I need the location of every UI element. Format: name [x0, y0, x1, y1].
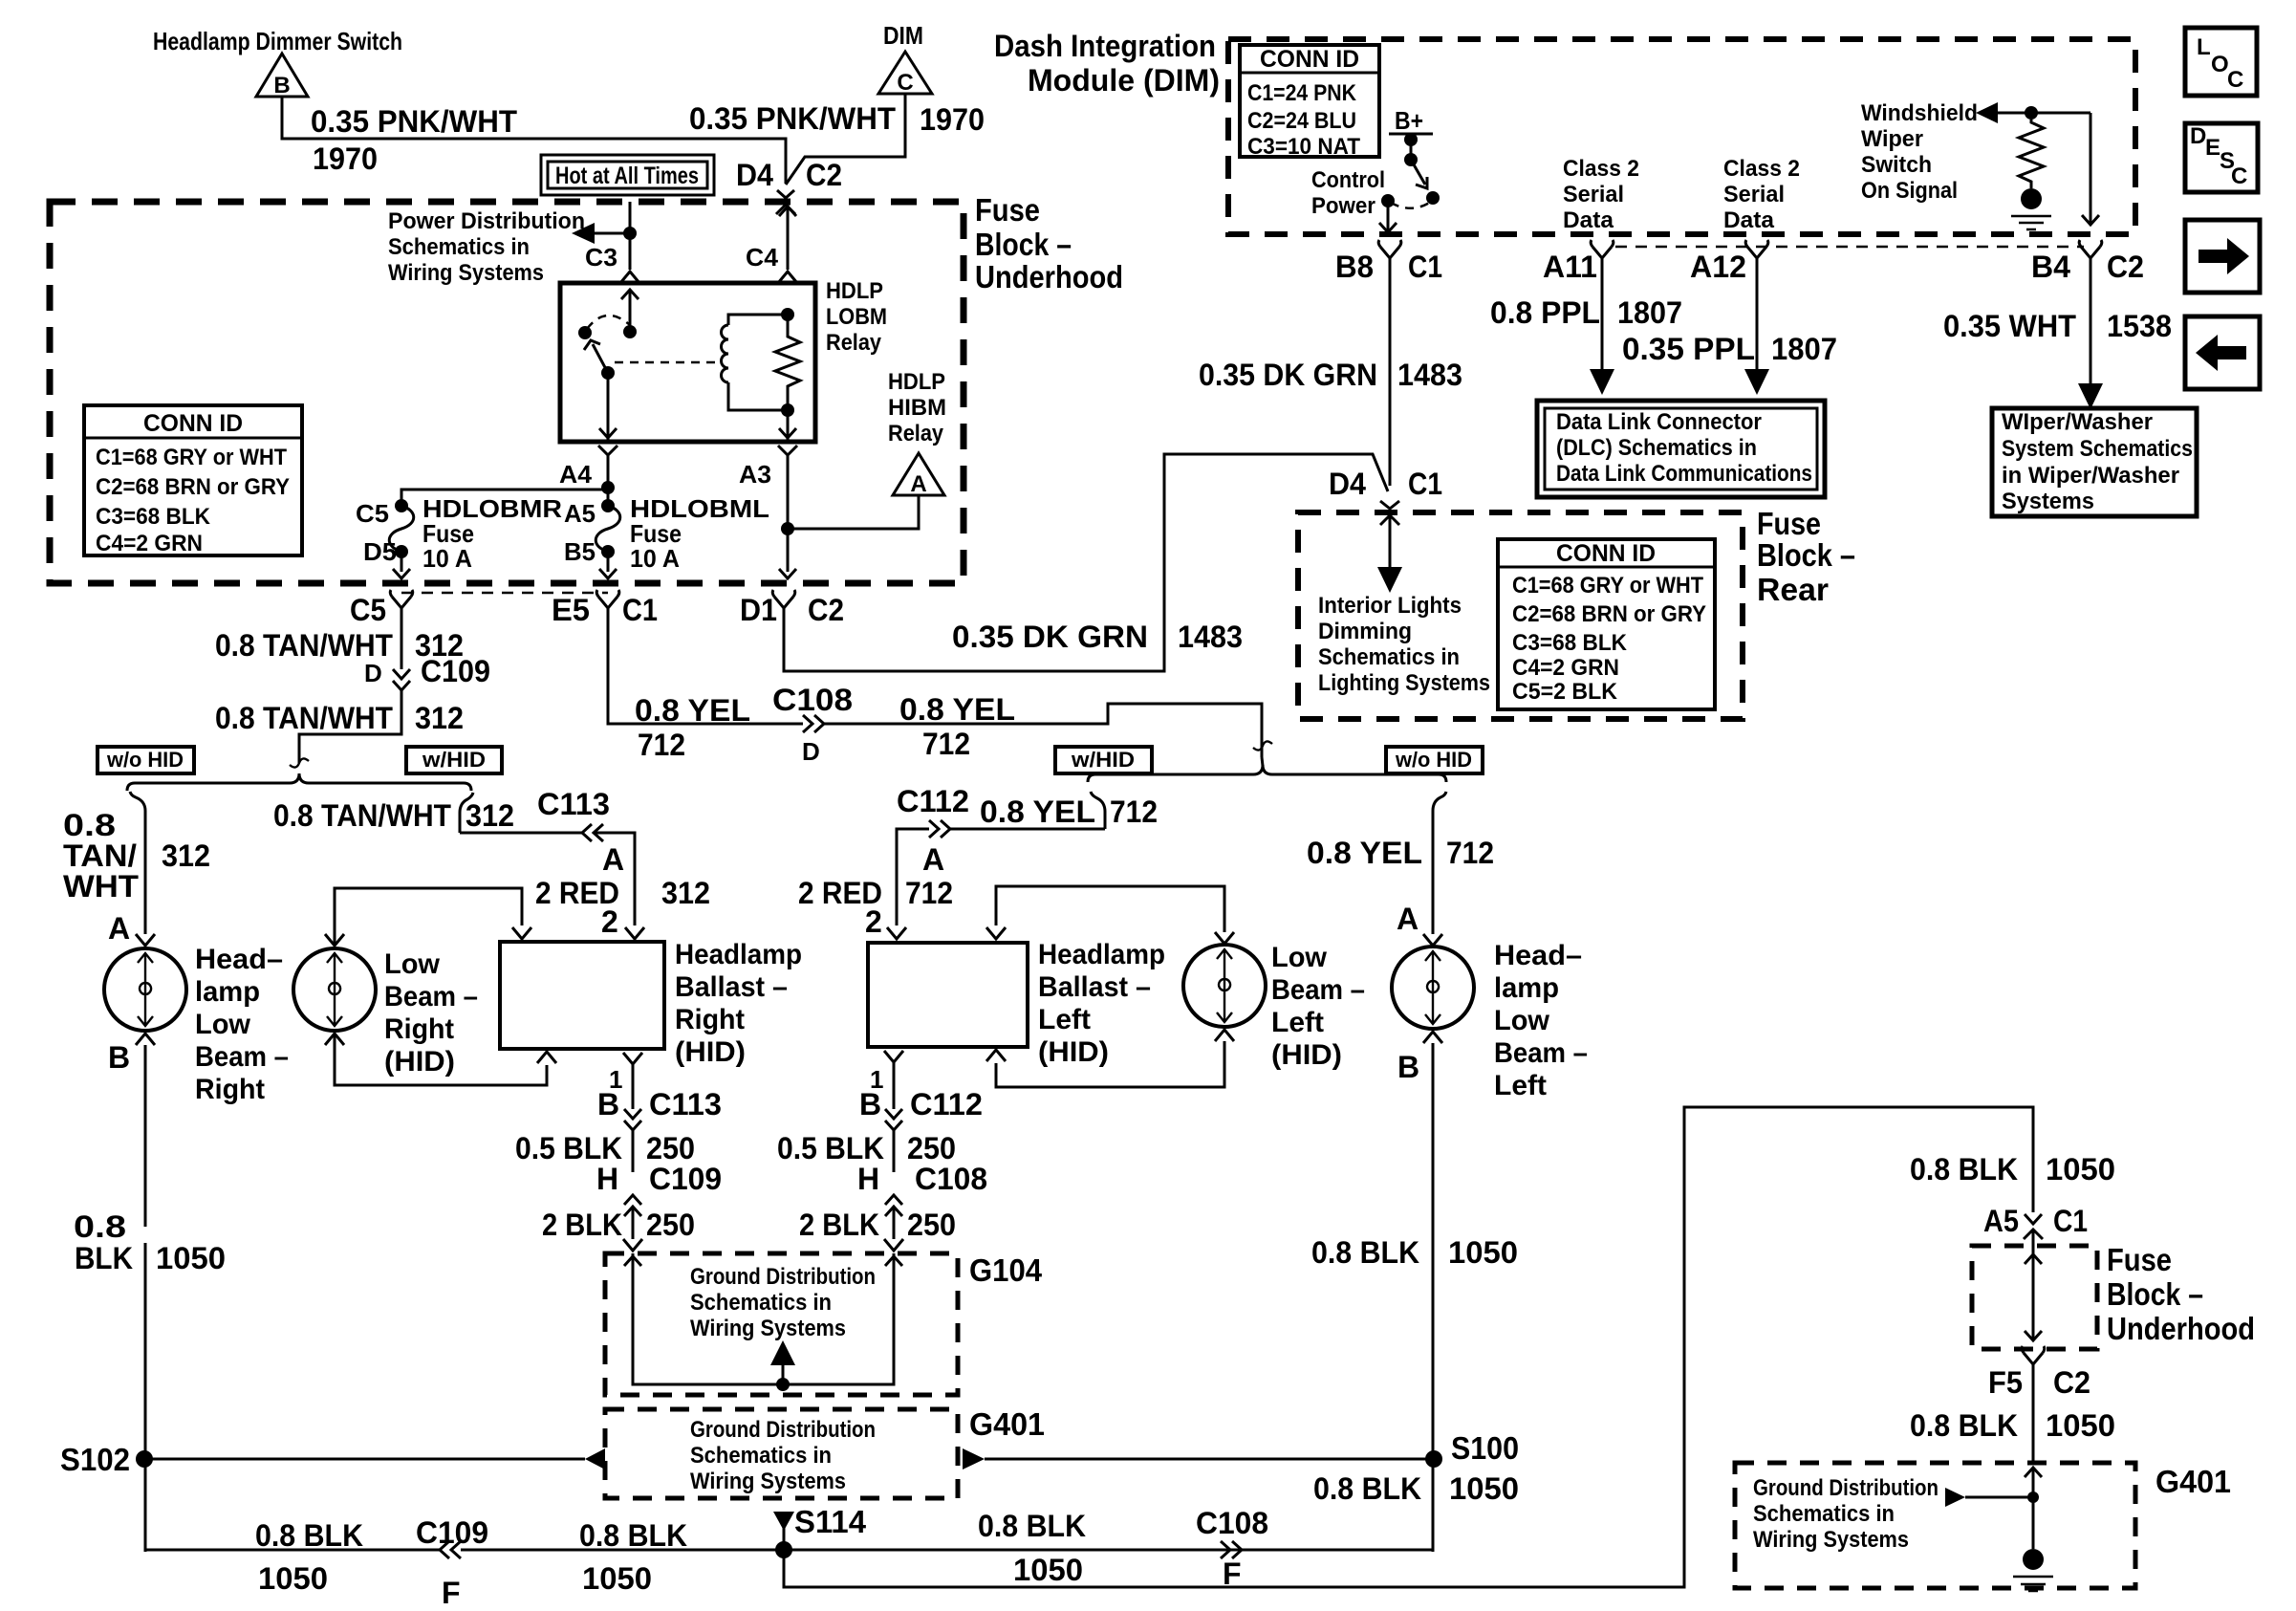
- B+ bar and switch: [1389, 133, 1433, 136]
- svg-text:Low: Low: [1494, 1005, 1550, 1036]
- Hot at All Times box: [541, 155, 714, 195]
- svg-text:C: C: [897, 70, 913, 96]
- DIM CONN ID box: [1240, 45, 1379, 157]
- svg-text:0.5 BLK: 0.5 BLK: [515, 1131, 622, 1165]
- svg-text:D: D: [364, 659, 382, 687]
- left arrow box: [2185, 316, 2260, 389]
- svg-text:System Schematics: System Schematics: [2002, 436, 2193, 462]
- svg-text:lamp: lamp: [1494, 972, 1559, 1004]
- svg-text:Systems: Systems: [2002, 489, 2094, 514]
- svg-text:0.8: 0.8: [74, 1209, 126, 1244]
- svg-text:Wiring Systems: Wiring Systems: [690, 1316, 846, 1341]
- entry connector: [2025, 1468, 2042, 1477]
- svg-text:B: B: [108, 1040, 130, 1075]
- svg-text:C108: C108: [915, 1162, 987, 1196]
- svg-text:E5: E5: [552, 593, 590, 627]
- svg-text:Fuse: Fuse: [975, 192, 1040, 228]
- svg-text:C1: C1: [622, 593, 658, 627]
- svg-text:Data Link Connector: Data Link Connector: [1556, 409, 1762, 435]
- connector into relay C4: [778, 272, 797, 283]
- control power contact: [1381, 194, 1395, 207]
- svg-text:Class 2: Class 2: [1563, 156, 1639, 182]
- svg-text:F5: F5: [1988, 1365, 2023, 1400]
- connector into ballast left pin: [887, 927, 906, 939]
- svg-text:Low: Low: [384, 948, 441, 980]
- svg-text:1483: 1483: [1397, 358, 1462, 392]
- svg-text:Wiring Systems: Wiring Systems: [690, 1469, 846, 1494]
- triangle B (Headlamp Dimmer Switch off-page): [256, 54, 308, 97]
- svg-text:C2=68 BRN or GRY: C2=68 BRN or GRY: [96, 474, 290, 500]
- svg-text:C3=68 BLK: C3=68 BLK: [1512, 630, 1628, 656]
- svg-text:Underhood: Underhood: [2107, 1311, 2255, 1346]
- svg-text:C2: C2: [2053, 1365, 2090, 1400]
- svg-text:0.35 DK GRN: 0.35 DK GRN: [1199, 358, 1377, 392]
- hook from brace left end to C112 wire: [950, 792, 1105, 829]
- svg-text:250: 250: [907, 1131, 956, 1165]
- svg-text:D: D: [802, 737, 820, 766]
- svg-text:G401: G401: [2155, 1464, 2231, 1499]
- svg-text:0.8 TAN/WHT: 0.8 TAN/WHT: [215, 701, 393, 735]
- svg-text:L: L: [2197, 34, 2211, 60]
- connector D4/C2 at fuse block border: [777, 190, 794, 198]
- svg-text:D4: D4: [736, 158, 773, 192]
- connector B8/C1: [1380, 247, 1399, 258]
- svg-text:Wiper: Wiper: [1861, 126, 1923, 152]
- svg-text:w/o HID: w/o HID: [106, 748, 184, 772]
- svg-text:Windshield: Windshield: [1861, 100, 1978, 126]
- svg-text:712: 712: [638, 728, 685, 762]
- break squiggle above brace center: [290, 758, 309, 767]
- svg-text:Beam –: Beam –: [1271, 974, 1365, 1006]
- svg-text:Hot at All Times: Hot at All Times: [555, 163, 699, 189]
- wire C3 column with junction dot: [629, 202, 632, 270]
- svg-text:Block –: Block –: [2107, 1276, 2203, 1312]
- in-line connector C108 F (>>): [1221, 1541, 1230, 1558]
- svg-text:D5: D5: [363, 537, 397, 566]
- svg-text:CONN ID: CONN ID: [1260, 46, 1359, 73]
- svg-text:lamp: lamp: [195, 976, 260, 1008]
- wire headlamp left B down to S100: [1432, 1043, 1435, 1552]
- thin dashed connector line: [1615, 246, 2084, 249]
- svg-text:0.5 BLK: 0.5 BLK: [777, 1131, 884, 1165]
- svg-text:C1=68 GRY or WHT: C1=68 GRY or WHT: [96, 445, 287, 470]
- connector B4/C2: [2081, 247, 2100, 258]
- ground symbol G401: [2023, 1549, 2044, 1570]
- svg-text:B: B: [859, 1087, 881, 1121]
- svg-text:2 BLK: 2 BLK: [799, 1208, 879, 1242]
- relay coil output wire with down arrow: [787, 410, 790, 440]
- svg-text:Block –: Block –: [975, 227, 1072, 262]
- svg-text:DIM: DIM: [883, 21, 923, 50]
- wire W2 from S114 to fuse block underhood (right): [784, 1107, 2033, 1587]
- svg-text:Left: Left: [1038, 1004, 1091, 1035]
- svg-text:(HID): (HID): [675, 1036, 746, 1068]
- svg-text:TAN/: TAN/: [63, 838, 137, 873]
- svg-text:C109: C109: [416, 1515, 488, 1550]
- w/o HID box (right): [1386, 747, 1483, 773]
- svg-text:B4: B4: [2031, 250, 2070, 284]
- svg-text:C2: C2: [808, 593, 844, 627]
- svg-text:A5: A5: [1983, 1204, 2019, 1238]
- wire G401 to S100: [985, 1458, 1434, 1461]
- svg-text:0.8 TAN/WHT: 0.8 TAN/WHT: [215, 628, 393, 663]
- svg-text:(HID): (HID): [384, 1046, 455, 1078]
- svg-text:A: A: [108, 911, 130, 946]
- svg-text:C4=2 GRN: C4=2 GRN: [96, 531, 203, 556]
- svg-text:0.8 BLK: 0.8 BLK: [978, 1509, 1086, 1543]
- triangle C (DIM off-page): [878, 52, 932, 94]
- svg-text:1050: 1050: [582, 1561, 652, 1596]
- svg-text:C5=2 BLK: C5=2 BLK: [1512, 679, 1618, 705]
- connector into ballast right pin: [625, 927, 644, 939]
- svg-text:712: 712: [1446, 836, 1494, 870]
- svg-text:Block –: Block –: [1757, 537, 1855, 573]
- svg-text:Ground Distribution: Ground Distribution: [1753, 1475, 1939, 1501]
- svg-text:A: A: [1397, 902, 1419, 936]
- hook from brace right end to headlamp left wire: [1433, 792, 1446, 824]
- relay pivot contact: [578, 326, 592, 339]
- wire to B4 with down arrow: [2090, 113, 2092, 224]
- svg-text:C108: C108: [1196, 1506, 1268, 1540]
- ballast right output connector (chain C113): [623, 1053, 642, 1064]
- svg-text:Beam –: Beam –: [384, 981, 478, 1012]
- svg-text:H: H: [596, 1162, 618, 1196]
- svg-text:Data: Data: [1563, 207, 1614, 233]
- svg-text:HIBM: HIBM: [888, 395, 946, 421]
- svg-text:1807: 1807: [1771, 332, 1837, 366]
- svg-text:1050: 1050: [2046, 1152, 2115, 1186]
- svg-text:O: O: [2211, 52, 2229, 77]
- right arrow box: [2185, 220, 2260, 293]
- svg-text:Module (DIM): Module (DIM): [1028, 63, 1220, 98]
- svg-text:Class 2: Class 2: [1723, 156, 1800, 182]
- svg-text:1807: 1807: [1617, 295, 1682, 330]
- svg-text:F: F: [1223, 1557, 1242, 1591]
- svg-text:C112: C112: [910, 1087, 983, 1121]
- wire headlamp right B down to S102: [144, 1045, 147, 1552]
- svg-text:C3: C3: [585, 243, 617, 272]
- svg-text:Right: Right: [195, 1074, 265, 1105]
- svg-text:A: A: [602, 842, 624, 877]
- svg-text:(DLC) Schematics in: (DLC) Schematics in: [1556, 435, 1757, 461]
- svg-text:1970: 1970: [920, 102, 985, 137]
- svg-text:312: 312: [415, 701, 464, 735]
- dashed throw arc: [1391, 202, 1431, 208]
- ballast left output connector (chain C112): [884, 1051, 903, 1062]
- svg-text:G401: G401: [969, 1406, 1045, 1442]
- svg-text:Schematics in: Schematics in: [1318, 644, 1460, 670]
- svg-text:BLK: BLK: [75, 1241, 133, 1275]
- svg-text:Dimming: Dimming: [1318, 619, 1412, 644]
- connector C5: [392, 597, 411, 608]
- svg-text:C109: C109: [421, 654, 490, 688]
- svg-text:A11: A11: [1543, 250, 1597, 284]
- svg-text:312: 312: [466, 798, 514, 833]
- relay resistor (parallel): [775, 315, 800, 410]
- svg-text:C5: C5: [356, 499, 389, 528]
- w/HID box (middle): [1055, 747, 1152, 773]
- svg-text:D4: D4: [1329, 467, 1366, 501]
- relay coil: [728, 315, 788, 325]
- ground dot and ground symbol (in DIM): [2021, 188, 2042, 209]
- svg-text:Wiring Systems: Wiring Systems: [388, 260, 544, 286]
- svg-text:10 A: 10 A: [422, 544, 472, 573]
- svg-text:(HID): (HID): [1271, 1039, 1342, 1071]
- relay internal: fixed contact wire with up arrow: [629, 290, 632, 332]
- svg-text:0.35 PPL: 0.35 PPL: [1622, 332, 1755, 366]
- switch arm with arrowhead: [1411, 160, 1425, 185]
- svg-text:(HID): (HID): [1038, 1036, 1109, 1068]
- svg-text:Head–: Head–: [1494, 940, 1582, 971]
- svg-text:A: A: [922, 842, 944, 877]
- wire C4 column: [787, 205, 790, 270]
- svg-text:1050: 1050: [1449, 1471, 1519, 1506]
- svg-text:C3=10 NAT: C3=10 NAT: [1247, 134, 1360, 160]
- svg-text:0.8 PPL: 0.8 PPL: [1490, 295, 1600, 330]
- svg-text:A5: A5: [564, 499, 596, 528]
- svg-text:Data Link Communications: Data Link Communications: [1556, 461, 1812, 487]
- svg-text:G104: G104: [969, 1252, 1043, 1288]
- svg-text:WHT: WHT: [63, 869, 139, 903]
- svg-text:Relay: Relay: [888, 421, 944, 446]
- svg-text:B: B: [597, 1087, 619, 1121]
- wire 0.8 TAN/WHT from C5 down: [401, 608, 403, 669]
- svg-text:A12: A12: [1690, 250, 1746, 284]
- svg-text:2: 2: [865, 904, 882, 939]
- relay output connectors A4 A3: [598, 446, 617, 455]
- bottom wire W1 (S102 leg to S100): [145, 1549, 1433, 1552]
- wire into interior lights dimming with arrow: [1389, 515, 1392, 574]
- svg-text:Left: Left: [1494, 1070, 1547, 1101]
- svg-text:Power Distribution: Power Distribution: [388, 208, 585, 234]
- svg-text:Rear: Rear: [1757, 572, 1829, 607]
- wire from triangle C to D4/C2: [786, 94, 905, 185]
- arrow to power distribution (left): [593, 232, 630, 235]
- svg-text:0.8 BLK: 0.8 BLK: [1313, 1471, 1421, 1506]
- svg-text:C2=24 BLU: C2=24 BLU: [1247, 108, 1356, 134]
- svg-text:10 A: 10 A: [630, 544, 680, 573]
- svg-text:312: 312: [661, 876, 710, 910]
- brace right group: [1088, 765, 1446, 782]
- fuse HDLOBML (right): [601, 481, 615, 494]
- connector D4/C1 into fuse block rear: [1380, 501, 1399, 509]
- svg-text:1483: 1483: [1178, 620, 1243, 654]
- G401 right arrow: [963, 1448, 985, 1469]
- relay dashed actuation link: [615, 361, 719, 364]
- svg-text:312: 312: [162, 838, 210, 873]
- LOC box: [2185, 28, 2257, 96]
- svg-text:F: F: [442, 1576, 461, 1610]
- svg-text:0.8 BLK: 0.8 BLK: [1910, 1408, 2018, 1443]
- svg-text:w/HID: w/HID: [422, 748, 486, 772]
- svg-text:C112: C112: [897, 784, 969, 818]
- svg-text:B: B: [273, 73, 290, 98]
- svg-text:2: 2: [601, 904, 618, 939]
- svg-text:Switch: Switch: [1861, 152, 1932, 178]
- Data Link Connector box: [1537, 401, 1825, 497]
- svg-text:C1: C1: [1408, 467, 1442, 501]
- connector E5/C1: [598, 597, 617, 608]
- wire S102 to G401: [151, 1458, 585, 1461]
- svg-text:Beam –: Beam –: [1494, 1037, 1588, 1069]
- svg-text:Schematics in: Schematics in: [690, 1290, 832, 1316]
- connector into relay C3: [620, 272, 639, 283]
- in-line connector B/C113 (down): [624, 1109, 641, 1119]
- svg-text:Headlamp: Headlamp: [1038, 939, 1165, 970]
- svg-text:A4: A4: [559, 460, 593, 489]
- svg-text:C113: C113: [537, 787, 610, 821]
- svg-text:S114: S114: [794, 1504, 867, 1539]
- svg-text:On Signal: On Signal: [1861, 178, 1958, 204]
- relay dashed throw arc: [587, 316, 630, 329]
- svg-text:C2=68 BRN or GRY: C2=68 BRN or GRY: [1512, 601, 1706, 627]
- svg-text:C109: C109: [649, 1162, 722, 1196]
- svg-text:Fuse: Fuse: [2107, 1242, 2172, 1277]
- svg-text:H: H: [857, 1162, 879, 1196]
- svg-text:0.8 BLK: 0.8 BLK: [1910, 1152, 2018, 1186]
- S114 marker: [773, 1512, 794, 1531]
- svg-text:in Wiper/Washer: in Wiper/Washer: [2002, 463, 2179, 489]
- svg-text:WIper/Washer: WIper/Washer: [2002, 409, 2153, 435]
- resistor (wiper on signal pull): [2019, 120, 2044, 188]
- svg-text:C1: C1: [1408, 250, 1442, 284]
- svg-text:D: D: [2190, 123, 2206, 149]
- svg-text:C: C: [2231, 163, 2247, 189]
- hook to headlamp right wire: [130, 792, 145, 824]
- svg-text:E: E: [2205, 135, 2220, 161]
- svg-text:B+: B+: [1395, 106, 1423, 135]
- hook from brace right end to C113 wire: [460, 793, 582, 833]
- in-line connector H/C109 (up): [624, 1195, 641, 1205]
- CONN ID box (fuse block underhood): [84, 405, 302, 555]
- svg-text:Control: Control: [1311, 167, 1385, 193]
- G401 left arrow: [585, 1448, 605, 1469]
- relay box HDLP LOBM: [560, 283, 815, 442]
- svg-text:B: B: [1397, 1050, 1419, 1084]
- wire low beam left bottom to ballast left bottom-right pin: [996, 1041, 1224, 1087]
- svg-text:0.8 YEL: 0.8 YEL: [980, 795, 1095, 829]
- in-line connector B/C112 (down): [885, 1109, 902, 1119]
- svg-text:Right: Right: [384, 1013, 454, 1045]
- svg-text:250: 250: [907, 1208, 956, 1242]
- brace left group: [127, 773, 471, 791]
- svg-text:0.8: 0.8: [63, 808, 116, 842]
- svg-text:C1: C1: [2053, 1204, 2088, 1238]
- wire A3 to triangle A and down: [787, 455, 790, 572]
- svg-text:1050: 1050: [258, 1561, 328, 1596]
- in-line connector C108 D (>>): [803, 715, 812, 732]
- wire low beam right bottom to ballast right: [335, 1034, 547, 1085]
- wire ballast left top-right pin to low beam left top: [986, 927, 1006, 939]
- svg-text:Low: Low: [1271, 942, 1328, 973]
- svg-text:Dash Integration: Dash Integration: [994, 29, 1216, 63]
- svg-text:B5: B5: [564, 537, 596, 566]
- svg-text:C2: C2: [2107, 250, 2144, 284]
- svg-text:2 BLK: 2 BLK: [542, 1208, 622, 1242]
- w/HID box: [406, 747, 502, 773]
- svg-text:Schematics in: Schematics in: [690, 1443, 832, 1469]
- svg-text:D1: D1: [740, 593, 777, 627]
- svg-text:LOBM: LOBM: [826, 304, 887, 330]
- svg-text:C4=2 GRN: C4=2 GRN: [1512, 655, 1619, 681]
- node S100: [1425, 1450, 1442, 1468]
- svg-text:0.35 DK GRN: 0.35 DK GRN: [952, 620, 1148, 654]
- connector into G104: [623, 1239, 642, 1251]
- svg-text:w/HID: w/HID: [1071, 748, 1135, 772]
- Wiper/Washer System Schematics box: [1992, 408, 2197, 516]
- triangle A (HDLP HIBM Relay off-page): [893, 453, 944, 495]
- break squiggle above right brace center: [1253, 741, 1272, 750]
- svg-text:A3: A3: [739, 460, 771, 489]
- w/o HID box (left): [97, 747, 194, 773]
- svg-text:C: C: [2227, 67, 2243, 93]
- svg-text:S100: S100: [1451, 1430, 1519, 1466]
- CONN ID box (fuse block rear): [1498, 539, 1715, 709]
- svg-text:C3=68 BLK: C3=68 BLK: [96, 504, 211, 530]
- svg-text:0.8 YEL: 0.8 YEL: [635, 693, 750, 728]
- svg-text:712: 712: [1110, 795, 1158, 829]
- svg-text:C108: C108: [772, 683, 853, 717]
- svg-text:0.8 BLK: 0.8 BLK: [255, 1518, 363, 1553]
- svg-text:712: 712: [922, 727, 970, 761]
- svg-text:Fuse: Fuse: [1757, 506, 1821, 541]
- node S102: [136, 1450, 153, 1468]
- wire 0.8 YEL from E5/C1 to the right: [608, 608, 803, 724]
- svg-text:HDLP: HDLP: [826, 278, 883, 304]
- svg-text:1050: 1050: [1448, 1235, 1518, 1270]
- DESC box: [2185, 123, 2258, 192]
- G104 internal wires: [633, 1253, 894, 1384]
- svg-text:Serial: Serial: [1563, 182, 1624, 207]
- wire to headlamp low beam right: [144, 822, 147, 934]
- svg-text:S102: S102: [60, 1442, 130, 1477]
- branch arrow and node: [1945, 1488, 1965, 1507]
- svg-text:712: 712: [905, 876, 953, 910]
- svg-text:0.8 BLK: 0.8 BLK: [579, 1518, 687, 1553]
- svg-text:Schematics in: Schematics in: [1753, 1501, 1895, 1527]
- svg-text:0.8 TAN/WHT: 0.8 TAN/WHT: [273, 798, 451, 833]
- svg-text:1970: 1970: [313, 142, 378, 176]
- relay switch arm with arrowhead: [593, 344, 608, 373]
- wire 0.35 DK GRN from D1/C2 to fuse block rear: [784, 454, 1388, 671]
- svg-text:Head–: Head–: [195, 944, 283, 975]
- svg-text:Relay: Relay: [826, 330, 882, 356]
- svg-text:Power: Power: [1311, 193, 1375, 219]
- svg-text:0.35 PNK/WHT: 0.35 PNK/WHT: [689, 101, 896, 136]
- svg-text:Ground Distribution: Ground Distribution: [690, 1417, 876, 1443]
- svg-text:w/o HID: w/o HID: [1395, 748, 1472, 772]
- svg-text:Wiring Systems: Wiring Systems: [1753, 1527, 1909, 1553]
- svg-text:250: 250: [646, 1131, 695, 1165]
- svg-text:0.8 BLK: 0.8 BLK: [1311, 1235, 1419, 1270]
- svg-text:1050: 1050: [1013, 1553, 1083, 1587]
- svg-text:1050: 1050: [156, 1241, 226, 1275]
- svg-text:1538: 1538: [2107, 309, 2172, 343]
- svg-text:Low: Low: [195, 1009, 251, 1040]
- svg-text:0.35 PNK/WHT: 0.35 PNK/WHT: [311, 104, 517, 139]
- svg-text:C5: C5: [350, 593, 386, 627]
- wire low beam right top to ballast right: [335, 888, 522, 946]
- svg-text:CONN ID: CONN ID: [143, 410, 243, 437]
- connector D1/C2: [774, 597, 793, 608]
- svg-text:0.8 YEL: 0.8 YEL: [899, 692, 1015, 727]
- dashed wire between C5 and E5 stubs: [401, 592, 608, 595]
- svg-text:Schematics in: Schematics in: [388, 234, 530, 260]
- fuse block underhood small dashed box: [1972, 1246, 2097, 1349]
- svg-text:Headlamp: Headlamp: [675, 939, 802, 970]
- connector A12: [1747, 247, 1766, 258]
- svg-text:250: 250: [646, 1208, 695, 1242]
